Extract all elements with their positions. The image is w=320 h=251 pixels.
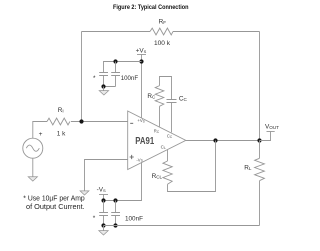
capacitor C1 (10uF) plates <box>99 73 108 76</box>
wire: VOUT tap <box>260 132 271 141</box>
-VS terminal bar <box>99 194 108 196</box>
node: output dot at feedback junction <box>257 138 261 142</box>
ground below source <box>28 177 37 181</box>
svg-text:+VS: +VS <box>136 47 147 54</box>
wire: RL top lead <box>259 141 261 159</box>
wire: CC to pin <box>171 103 173 132</box>
wire: -VS supply line to op-amp pin <box>104 162 142 200</box>
resistor RC zigzag vertical <box>155 86 164 107</box>
svg-text:RCL: RCL <box>152 173 163 180</box>
wire: source bottom lead <box>32 158 34 177</box>
wire: right vertical from top rail to output node <box>259 32 261 141</box>
wire: -VS stub down to supply wire <box>103 195 105 201</box>
svg-text:-VS: -VS <box>136 157 142 162</box>
capacitor C3 (10uF) bottom <box>99 201 108 226</box>
wire: RC to pin <box>159 106 161 126</box>
resistor RF zigzag <box>150 28 173 35</box>
resistor RI zigzag <box>47 118 70 125</box>
node: cap junction dot bottom <box>113 198 117 202</box>
wire: non-inverting input to ground <box>85 160 128 191</box>
capacitor CC plates <box>167 100 177 103</box>
resistor RL zigzag <box>255 158 265 180</box>
svg-text:RL: RL <box>244 165 252 172</box>
svg-text:VOUT: VOUT <box>265 123 279 130</box>
svg-text:100nF: 100nF <box>121 75 138 82</box>
svg-text:RF: RF <box>159 19 167 26</box>
svg-text:CC: CC <box>179 95 188 102</box>
svg-text:1 k: 1 k <box>57 130 66 137</box>
wire: top feedback rail left segment <box>82 31 151 33</box>
+VS terminal bar <box>137 54 146 56</box>
wire: RCL bottom return loop to output node <box>168 141 216 192</box>
svg-text:100 k: 100 k <box>154 40 171 47</box>
op-amp PA91 triangle <box>128 111 186 170</box>
wire: bottom rail to RL <box>104 225 260 227</box>
svg-text:+: + <box>39 131 43 138</box>
capacitor C2 (100nF) <box>111 62 120 87</box>
svg-text:100nF: 100nF <box>125 215 143 222</box>
node: feedback junction dot <box>79 119 83 123</box>
plus input sign <box>130 155 134 159</box>
node: +VS junction dot <box>139 59 143 63</box>
wire: bypass caps to +VS <box>104 62 142 73</box>
RC-CC compensation bracket <box>160 77 172 100</box>
node: bottom rail dot right <box>113 223 117 227</box>
wire: RL bottom lead <box>259 181 261 226</box>
svg-text:of Output Current.: of Output Current. <box>26 202 85 211</box>
wire: source top lead to RI <box>33 122 47 139</box>
sine wave inside source <box>26 145 39 151</box>
node: bottom rail dot left <box>101 223 105 227</box>
svg-text:RI: RI <box>58 107 64 114</box>
node: cap junction dot top <box>113 59 117 63</box>
wire: caps bottom join <box>104 76 116 87</box>
resistor RCL zigzag <box>163 161 172 184</box>
capacitor C4 (100nF) bottom <box>111 201 120 226</box>
ground below top caps <box>103 87 105 91</box>
node: output dot at RCL return <box>213 138 217 142</box>
ground below bottom caps <box>103 226 105 231</box>
node: -VS junction dot <box>101 198 105 202</box>
svg-text:PA91: PA91 <box>135 136 154 147</box>
wire: +VS supply line down to op-amp pin <box>141 55 143 119</box>
wire: output from apex <box>186 140 260 142</box>
svg-text:Figure 2: Typical Connection: Figure 2: Typical Connection <box>113 4 189 11</box>
wire: RI to inverting input <box>71 121 128 123</box>
VOUT terminal bar <box>267 131 275 133</box>
svg-text:+VS: +VS <box>137 118 144 123</box>
svg-text:CC: CC <box>167 134 173 139</box>
svg-text:-VS: -VS <box>97 187 106 194</box>
svg-text:CL: CL <box>161 144 166 149</box>
svg-text:RC: RC <box>154 128 160 133</box>
wire: top feedback rail right segment <box>173 31 260 33</box>
wire: left feedback vertical <box>81 32 83 122</box>
node: cap bottom dot <box>101 84 105 88</box>
ground at + input <box>80 191 89 195</box>
source VIN circle <box>23 138 43 158</box>
minus input sign <box>130 122 133 124</box>
svg-text:RC: RC <box>147 93 156 100</box>
wire: CL pin down to RCL <box>167 150 169 161</box>
